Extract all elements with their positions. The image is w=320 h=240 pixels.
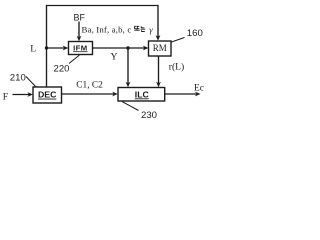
svg-text:Ec: Ec	[194, 83, 204, 93]
svg-text:160: 160	[187, 28, 203, 39]
svg-text:DEC: DEC	[38, 90, 57, 100]
svg-text:220: 220	[54, 64, 70, 75]
svg-text:γ: γ	[149, 25, 153, 35]
svg-text:230: 230	[141, 110, 157, 120]
svg-text:Ba, Inf, a,b, c: Ba, Inf, a,b, c	[82, 24, 132, 34]
svg-text:r(L): r(L)	[169, 61, 184, 72]
svg-text:IFM: IFM	[73, 43, 87, 52]
svg-text:F: F	[3, 91, 8, 102]
svg-text:210: 210	[10, 72, 26, 83]
svg-text:Y: Y	[111, 52, 118, 63]
svg-text:RM: RM	[153, 43, 167, 53]
svg-text:BF: BF	[74, 13, 86, 23]
svg-text:ILC: ILC	[135, 89, 150, 99]
svg-text:L: L	[30, 44, 36, 55]
svg-text:C1, C2: C1, C2	[76, 81, 103, 91]
